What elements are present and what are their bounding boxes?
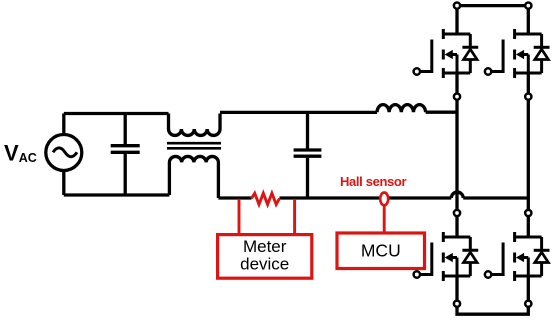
svg-text:Meter: Meter bbox=[243, 237, 287, 256]
transformer T1 core bbox=[167, 143, 221, 148]
capacitor C2 bottom lead bbox=[306, 158, 309, 198]
wire DC top rail bbox=[457, 4, 528, 7]
Meter device box bbox=[218, 235, 312, 279]
wire hop over left leg bbox=[451, 192, 463, 198]
wire Q2 drain lead bbox=[527, 6, 530, 34]
wire Q1 drain lead bbox=[455, 6, 458, 34]
transistor Q4 bbox=[485, 232, 550, 281]
wire bottom left rail bbox=[64, 193, 170, 196]
wire Q2 source lead bbox=[527, 73, 530, 97]
wire DC bottom rail bbox=[457, 304, 528, 315]
wire Q1 source lead bbox=[455, 73, 458, 97]
inductor L1 bbox=[377, 105, 426, 113]
wire bottom rail to right leg bbox=[463, 196, 528, 199]
hall sensor ellipse bbox=[380, 193, 388, 206]
svg-text:VAC: VAC bbox=[4, 141, 37, 166]
svg-text:Hall sensor: Hall sensor bbox=[340, 174, 407, 189]
capacitor C2 top lead bbox=[306, 112, 309, 148]
transformer T1 secondary winding bbox=[169, 156, 218, 198]
capacitor C2 plates bbox=[294, 150, 322, 156]
capacitor C1 top lead bbox=[124, 114, 127, 145]
node DC- left terminal bbox=[454, 301, 460, 307]
svg-text:device: device bbox=[240, 254, 289, 273]
wire Q3 drain lead bbox=[455, 216, 458, 237]
wire tap left to meter bbox=[238, 199, 241, 235]
svg-text:MCU: MCU bbox=[361, 241, 401, 261]
wire hall sensor to MCU bbox=[383, 204, 386, 233]
node DC+ left terminal bbox=[454, 3, 460, 9]
node DC+ right terminal bbox=[525, 3, 531, 9]
transistor Q2 bbox=[485, 29, 550, 78]
wire top left rail bbox=[64, 112, 169, 115]
capacitor C1 bottom lead bbox=[124, 154, 127, 195]
sine symbol inside source bbox=[53, 148, 77, 157]
node right midpoint bbox=[525, 94, 531, 100]
wire top mid rail bbox=[220, 111, 377, 114]
node DC- right terminal bbox=[525, 301, 531, 307]
wire Q4 source lead bbox=[527, 276, 530, 304]
transistor Q1 bbox=[414, 29, 479, 78]
wire source bottom lead bbox=[62, 171, 65, 196]
wire Q4 drain lead bbox=[527, 216, 530, 237]
MCU box bbox=[337, 233, 425, 269]
wire inductor to left leg bbox=[426, 111, 457, 114]
transformer T1 primary winding bbox=[169, 114, 221, 136]
wire source top lead bbox=[62, 114, 65, 135]
shunt resistor R1 bbox=[252, 193, 280, 204]
capacitor C1 plates bbox=[111, 146, 140, 153]
node left midpoint bbox=[454, 94, 460, 100]
wire Q3 source lead bbox=[455, 276, 458, 304]
transistor Q3 bbox=[414, 232, 479, 281]
wire left leg bbox=[455, 97, 458, 210]
wire bottom rail right of shunt bbox=[280, 196, 452, 199]
wire bottom rail left of shunt bbox=[218, 196, 251, 199]
node Q4 drain terminal bbox=[525, 210, 531, 216]
wire right leg bbox=[527, 97, 530, 210]
node Q3 drain terminal bbox=[454, 210, 460, 216]
wire tap right to meter bbox=[293, 199, 296, 235]
AC source V_AC bbox=[46, 135, 82, 171]
